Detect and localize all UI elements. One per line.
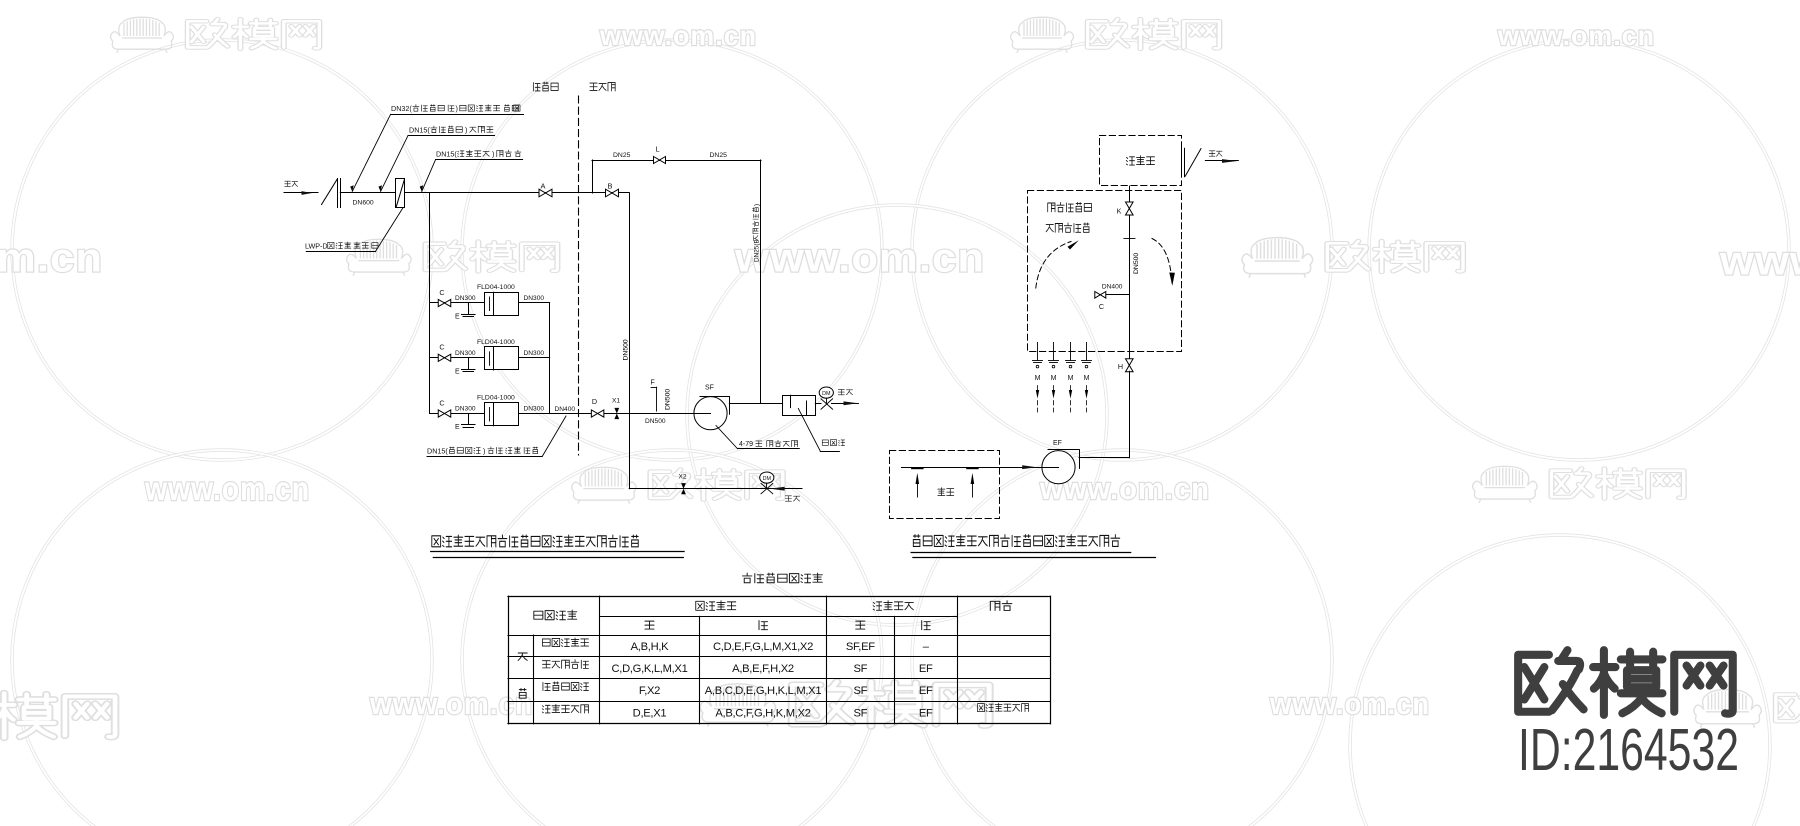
- svg-text:EF: EF: [919, 707, 933, 719]
- svg-text:4-79: 4-79: [739, 441, 753, 448]
- operation table: [742, 573, 822, 583]
- svg-text:DN300: DN300: [455, 295, 476, 302]
- exhaust fan EF (centrifugal): [1042, 451, 1075, 484]
- svg-text:www.om.cn: www.om.cn: [599, 20, 757, 51]
- four ceiling exhaust taps M: [1037, 342, 1039, 360]
- left diagram title: [432, 535, 638, 547]
- svg-text:DN300: DN300: [524, 295, 545, 302]
- svg-text:DN500: DN500: [1133, 253, 1140, 274]
- svg-text:www.om.cn: www.om.cn: [144, 471, 310, 508]
- svg-text:C,D,G,K,L,M,X1: C,D,G,K,L,M,X1: [612, 663, 688, 675]
- svg-text:DM: DM: [822, 391, 831, 397]
- svg-text:DN300: DN300: [455, 350, 476, 357]
- muffler and airtight valve DM, supply outlet arrow: [729, 403, 782, 405]
- svg-text:DN400: DN400: [0, 0, 21, 2]
- svg-text:A,B,E,F,H,X2: A,B,E,F,H,X2: [732, 663, 794, 675]
- svg-text:EF: EF: [919, 685, 933, 697]
- svg-text:M: M: [1035, 375, 1041, 382]
- svg-text:DN15(: DN15(: [409, 125, 430, 134]
- svg-text:H: H: [1118, 362, 1123, 371]
- svg-text:K: K: [1117, 207, 1122, 216]
- svg-text:DN25(B: DN25(B: [754, 239, 761, 262]
- zone labels and contamination boundary dashed line: [533, 82, 558, 91]
- svg-text:SF,EF: SF,EF: [846, 641, 875, 653]
- tap F and supply fan SF pipe: [629, 413, 694, 415]
- svg-text:DN500: DN500: [623, 339, 630, 360]
- svg-text:A,B,H,K: A,B,H,K: [631, 641, 670, 653]
- pipe DN400 with valve D and tap X1: [550, 413, 630, 415]
- svg-text:www.om.cn: www.om.cn: [1269, 688, 1430, 721]
- leader label DN15 sampling tap: [542, 416, 566, 457]
- valve H and pipe to exhaust fan: [1126, 359, 1134, 372]
- svg-text:DM: DM: [763, 476, 772, 482]
- svg-text:C: C: [439, 398, 444, 407]
- DN25 bypass line with valve L: [592, 160, 594, 193]
- main supply pipe DN600/DN500: [340, 192, 629, 194]
- svg-text:C: C: [439, 343, 444, 352]
- svg-text:FLD04-1000: FLD04-1000: [477, 339, 515, 346]
- svg-text:F: F: [651, 379, 655, 386]
- svg-text:DN400: DN400: [1102, 284, 1123, 291]
- svg-text:DN300: DN300: [455, 406, 476, 413]
- svg-text:DN500: DN500: [665, 389, 672, 410]
- svg-text:DN15(: DN15(: [427, 446, 448, 455]
- svg-text:A: A: [541, 182, 546, 191]
- vertical pipe DN400 to filter bank: [429, 193, 431, 414]
- site logo and ID: [1518, 650, 1583, 712]
- svg-text:L: L: [655, 145, 659, 154]
- svg-text:EF: EF: [1053, 440, 1062, 447]
- fan type label 4-79: [716, 426, 738, 449]
- watermark layer: [12, 40, 432, 460]
- svg-text:M: M: [1084, 375, 1090, 382]
- svg-text:): ): [492, 150, 494, 159]
- svg-text:DN25: DN25: [710, 152, 728, 159]
- svg-text:SF: SF: [853, 707, 867, 719]
- svg-text:EF: EF: [919, 663, 933, 675]
- svg-text:M: M: [1051, 375, 1057, 382]
- svg-text:A,B,C,D,E,G,H,K,L,M,X1: A,B,C,D,E,G,H,K,L,M,X1: [705, 685, 822, 697]
- svg-text:DN25: DN25: [613, 152, 631, 159]
- svg-text:F,X2: F,X2: [639, 685, 660, 697]
- svg-text:DN300: DN300: [524, 406, 545, 413]
- exhaust louver and arrow: [1181, 148, 1183, 176]
- expansion chamber (dashed room): [1100, 136, 1182, 186]
- svg-text:www.om.cn: www.om.cn: [734, 235, 985, 281]
- svg-text:M: M: [1068, 375, 1074, 382]
- vertical pipe DN500: [629, 193, 631, 489]
- svg-text:X2: X2: [679, 474, 687, 481]
- svg-text:C: C: [1099, 302, 1104, 311]
- svg-text:DN300: DN300: [524, 350, 545, 357]
- svg-text:www.om.cn: www.om.cn: [1497, 20, 1655, 51]
- svg-text:FLD04-1000: FLD04-1000: [477, 395, 515, 402]
- LWP-D filter label: [375, 208, 403, 252]
- svg-text:DN600: DN600: [353, 200, 374, 207]
- fresh air inlet label and arrow: [285, 181, 298, 186]
- leader labels DN32/DN15 taps: [352, 114, 390, 191]
- washing room with gas-proof passage (dashed room): [1028, 191, 1182, 352]
- dashed airflow arc arrows: [1036, 242, 1071, 289]
- dry toilet room (dashed) with intake arrows: [890, 451, 1000, 519]
- supply fan SF (centrifugal): [694, 397, 727, 430]
- exhaust riser DN500 with valve K: [1129, 186, 1131, 359]
- svg-text:A,B,C,F,G,H,K,M,X2: A,B,C,F,G,H,K,M,X2: [715, 707, 810, 719]
- exhaust branch with tap X2 and airtight valve DM: [629, 488, 802, 490]
- svg-text:DN400: DN400: [555, 406, 576, 413]
- right diagram title: [913, 535, 1119, 547]
- svg-text:–: –: [923, 641, 930, 653]
- svg-text:www.om.cn: www.om.cn: [0, 235, 103, 281]
- svg-text:DN32(: DN32(: [391, 104, 412, 113]
- svg-text:B: B: [608, 182, 613, 191]
- svg-text:): ): [754, 204, 761, 206]
- svg-text:E: E: [455, 314, 460, 321]
- svg-text:): ): [483, 446, 485, 455]
- svg-text:SF: SF: [853, 685, 867, 697]
- svg-text:): ): [465, 125, 467, 134]
- svg-text:DN500: DN500: [645, 418, 666, 425]
- svg-text:LWP-D: LWP-D: [305, 241, 328, 250]
- intake louver: [322, 180, 338, 205]
- svg-text:D,E,X1: D,E,X1: [633, 707, 667, 719]
- svg-text:): ): [456, 104, 458, 113]
- svg-text:www.om.cn: www.om.cn: [1719, 238, 1800, 284]
- valve A and valve B: [539, 189, 552, 197]
- svg-text:ID:2164532: ID:2164532: [1518, 717, 1739, 783]
- svg-text:DN15(: DN15(: [436, 150, 457, 159]
- svg-text:D: D: [592, 397, 597, 406]
- three FLD04-1000 filter branches with valves C and taps E: [430, 302, 485, 304]
- svg-text:X1: X1: [612, 398, 620, 405]
- svg-text:SF: SF: [853, 663, 867, 675]
- svg-text:FLD04-1000: FLD04-1000: [477, 284, 515, 291]
- DN400 branch with valve C (right): [1105, 294, 1129, 296]
- coarse filter LWP-D: [396, 179, 405, 208]
- svg-text:E: E: [455, 424, 460, 431]
- svg-text:C: C: [439, 288, 444, 297]
- svg-text:C,D,E,F,G,L,M,X1,X2: C,D,E,F,G,L,M,X1,X2: [713, 641, 813, 653]
- svg-text:E: E: [455, 368, 460, 375]
- svg-text:SF: SF: [705, 385, 714, 392]
